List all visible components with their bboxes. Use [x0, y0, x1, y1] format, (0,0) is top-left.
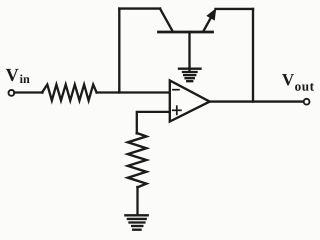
resistor R1 [42, 85, 97, 101]
wire feedback vertical left [118, 9, 120, 93]
transistor Q1 base bar [159, 31, 213, 34]
wire top right [216, 8, 254, 10]
transistor Q1 gate lead [188, 32, 190, 71]
output terminal [304, 99, 310, 105]
ground bottom [125, 215, 147, 229]
wire resistor R2 to ground [136, 187, 138, 215]
V_out label [282, 74, 314, 91]
transistor Q1 left lead [160, 9, 173, 31]
wire output [210, 100, 304, 102]
wire input terminal to resistor [14, 91, 42, 93]
op-amp plus sign [173, 106, 181, 114]
wire plus input [137, 112, 170, 134]
wire top left [119, 7, 160, 9]
op-amp minus sign [173, 89, 179, 91]
wire resistor to op-amp inverting input [97, 91, 170, 93]
op-amp U1 [170, 80, 210, 121]
wire feedback vertical right [252, 9, 254, 102]
transistor Q1 emitter lead with arrow [204, 8, 217, 31]
ground top [179, 69, 201, 82]
resistor R2 vertical [128, 133, 147, 187]
V_in label [6, 69, 30, 83]
input terminal [9, 90, 15, 96]
